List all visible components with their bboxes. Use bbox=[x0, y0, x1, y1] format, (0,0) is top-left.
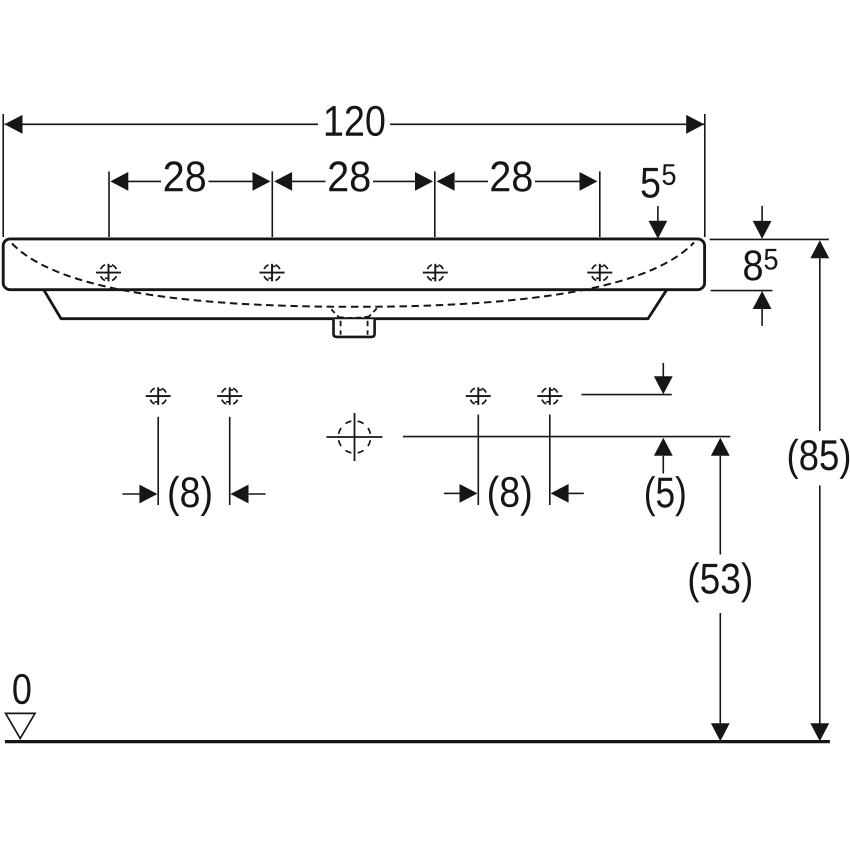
dimension (5) arrow top bbox=[662, 363, 664, 377]
dimension (8) right: arrow b bbox=[569, 492, 584, 494]
datum triangle bbox=[6, 713, 35, 738]
datum zero label bbox=[13, 674, 30, 704]
dimension 28 span1 label bbox=[165, 161, 205, 191]
dimension 8.5 extension line bottom bbox=[711, 290, 773, 292]
drain outlet box bbox=[334, 319, 375, 337]
lower tap hole group: hole 5 bbox=[146, 387, 171, 405]
drain center mark bbox=[327, 413, 383, 461]
washbasin rim outline bbox=[3, 239, 704, 290]
dimension 8.5 arrow top bbox=[761, 206, 763, 222]
dimension (5) arrow bottom bbox=[662, 456, 664, 474]
dimension 120 extension line right bbox=[704, 114, 706, 237]
dimension 120 label bbox=[326, 106, 385, 136]
hole 8 extension line bbox=[549, 415, 551, 506]
hole 6 extension line bbox=[229, 417, 231, 505]
dimension 28 span2 label bbox=[329, 161, 369, 191]
dimension 28 span1 line bbox=[127, 180, 161, 182]
drain opening dashed arc bbox=[339, 317, 369, 318]
dimension 28 extension line a bbox=[108, 171, 110, 237]
tap hole 4 bbox=[587, 264, 612, 282]
dimension 120 arrow left bbox=[5, 115, 23, 134]
dimension (53) line bbox=[719, 456, 721, 555]
dimension (85) arrow bottom bbox=[810, 723, 829, 741]
dimension 28 span3 label bbox=[491, 161, 531, 191]
dimension (8) right: arrow a bbox=[444, 492, 460, 494]
dimension (85) label bbox=[789, 439, 849, 479]
dimension 8.5 arrow bottom bbox=[761, 309, 763, 326]
drain outlet dashed line left bbox=[340, 321, 342, 335]
dimension 28 extension line c bbox=[434, 171, 436, 237]
dimension 28 span2 arrow right bbox=[415, 172, 433, 191]
drain funnel dashed right bbox=[368, 308, 377, 317]
dimension (8) left: arrow a bbox=[122, 493, 139, 495]
dimension 28 span3 arrow right bbox=[580, 172, 598, 191]
dimension 28 extension line b bbox=[271, 171, 273, 237]
drain height reference line bbox=[403, 436, 730, 438]
dimension 28 span3 arrow left bbox=[437, 172, 455, 191]
hole 7 extension line bbox=[477, 415, 479, 506]
dimension (85) arrow top bbox=[810, 240, 829, 258]
dimension 120 line bbox=[5, 123, 319, 125]
dimension 8.5 extension line top bbox=[710, 238, 829, 240]
dimension (8) left label bbox=[169, 476, 210, 516]
dimension (53) arrow top bbox=[711, 438, 730, 456]
washbasin under-body bbox=[44, 290, 666, 319]
dimension (53) label bbox=[690, 562, 751, 602]
hole 5 extension line bbox=[157, 417, 159, 505]
drain outlet dashed line right bbox=[367, 321, 369, 335]
dimension (8) right label bbox=[489, 476, 530, 516]
dimension 28 span2 line bbox=[292, 180, 326, 182]
drain funnel dashed left bbox=[331, 309, 339, 317]
dimension (85) line bbox=[819, 258, 821, 431]
dimension (5) label bbox=[646, 476, 685, 516]
hole 6 bbox=[217, 387, 242, 405]
tap hole 2 bbox=[260, 264, 285, 282]
tap hole 1 bbox=[96, 264, 121, 282]
dimension 120 arrow right bbox=[686, 115, 704, 134]
dimension 8.5 label bbox=[744, 250, 762, 280]
tap hole reference line bbox=[582, 394, 672, 396]
hole 8 bbox=[537, 387, 562, 405]
dimension (8) left: arrow b bbox=[249, 493, 266, 495]
hole 7 bbox=[466, 387, 491, 405]
dimension 28 span1 arrow right bbox=[253, 172, 271, 191]
dimension 28 extension line d bbox=[599, 171, 601, 237]
dimension 120 extension line left bbox=[2, 114, 4, 237]
tap hole 3 bbox=[423, 264, 448, 282]
dimension 5.5 arrow bbox=[657, 206, 659, 222]
dimension 28 span2 arrow left bbox=[274, 172, 292, 191]
dimension (53) arrow bottom bbox=[711, 723, 730, 741]
dimension 28 span3 line bbox=[455, 180, 488, 182]
floor line bbox=[5, 740, 830, 743]
dimension 5.5 label bbox=[642, 168, 660, 198]
basin interior dashed curve bbox=[12, 243, 694, 307]
dimension 28 span1 arrow left bbox=[110, 172, 128, 191]
